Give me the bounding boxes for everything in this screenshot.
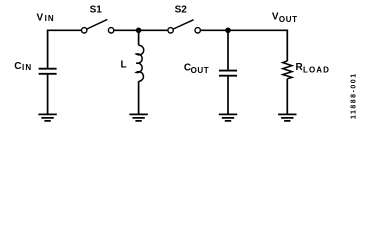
wire VOUT corner down to RLOAD [286,30,288,62]
ground below COUT [219,114,237,121]
wire node VOUT vertical drop to COUT [227,30,229,70]
wire CIN bottom plate to ground [47,75,49,114]
wire COUT bottom plate to ground [227,77,229,114]
wire RLOAD bottom to ground [286,79,288,114]
capacitor COUT [219,71,237,76]
node SW junction dot [136,28,142,34]
ground below CIN [38,114,56,121]
svg-text:V: V [37,12,44,23]
node VOUT junction dot [225,28,231,34]
svg-text:L: L [121,59,127,70]
label VOUT [272,11,298,24]
svg-text:S2: S2 [175,5,188,16]
label VIN [37,12,55,23]
svg-text:V: V [272,11,279,22]
resistor RLOAD zigzag [283,61,292,79]
svg-text:S1: S1 [90,5,103,16]
label RLOAD [296,62,331,75]
inductor L coil [136,45,144,81]
svg-text:OUT: OUT [279,15,298,24]
wire VIN vertical drop to CIN [47,30,49,68]
ground below RLOAD [278,114,296,121]
svg-text:IN: IN [45,14,55,23]
wire L bottom to ground [138,81,140,114]
svg-text:LOAD: LOAD [303,65,330,74]
label CIN [14,61,32,72]
svg-text:11888-001: 11888-001 [350,72,357,119]
switch S2 [168,20,200,33]
ground below L [129,114,147,121]
wire S1 right contact to S2 left contact through node SW [114,29,168,31]
label COUT [184,63,209,75]
wire S2 right contact to VOUT corner [200,29,287,31]
svg-text:OUT: OUT [191,66,210,75]
capacitor CIN [39,69,57,74]
switch S1 [82,19,114,33]
svg-text:IN: IN [22,63,32,72]
wire top rail from VIN corner to S1 left contact [48,29,82,31]
wire node SW vertical drop to L [138,30,140,45]
svg-text:C: C [14,61,21,72]
